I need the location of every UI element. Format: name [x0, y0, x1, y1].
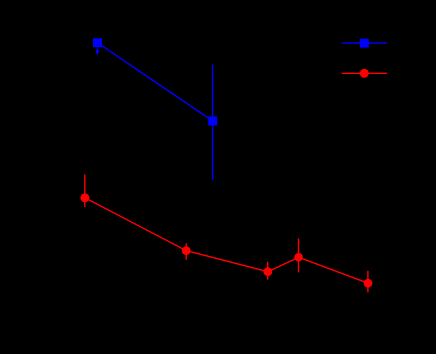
red error bar R3: [267, 262, 269, 280]
legend blue sample: [342, 39, 387, 48]
blue error bar point2: [212, 65, 214, 181]
red error bar R4: [298, 239, 300, 273]
red error bar R1: [84, 175, 86, 208]
blue square marker B1: [93, 38, 102, 47]
red circle marker R5: [364, 279, 373, 288]
blue series line B1-B2: [98, 43, 213, 121]
red circle marker R2: [182, 246, 191, 255]
red error bar R5: [367, 271, 369, 293]
red series polyline: [85, 198, 368, 283]
red circle marker R3: [263, 267, 272, 276]
blue square marker B2: [208, 117, 217, 126]
red circle marker R4: [294, 253, 303, 262]
red circle marker R1: [80, 193, 89, 202]
blue error bar point1: [96, 48, 99, 55]
red error bar R2: [185, 243, 187, 259]
legend red sample: [342, 69, 387, 78]
